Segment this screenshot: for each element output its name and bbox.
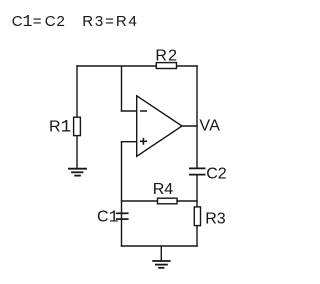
svg-text:C1: C1: [97, 207, 119, 226]
wire mid vertical to inverting input: [121, 66, 123, 111]
wire right bus upper (output net down to C2): [196, 66, 198, 168]
wire ground stub bottom: [160, 246, 162, 261]
ground (bottom): [152, 261, 170, 268]
wire non-inverting input: [122, 141, 138, 143]
wire left lower bus (node A: + input to C1 to bottom): [121, 142, 123, 246]
svg-text:R4: R4: [153, 181, 174, 198]
wire top (node: R1/R2/inverting input net): [77, 65, 197, 67]
capacitor C2: [189, 168, 206, 174]
svg-text:C1=C2: C1=C2: [12, 12, 65, 31]
wire bottom (ground net): [122, 245, 198, 247]
svg-text:R3: R3: [205, 210, 226, 227]
capacitor C1: [116, 213, 129, 219]
wire op-amp output to right bus: [182, 125, 197, 127]
wire R4 horizontal (node B): [122, 200, 198, 202]
resistor R2: [156, 63, 176, 69]
ground (under R1): [68, 169, 87, 176]
svg-text:R3=R4: R3=R4: [82, 13, 139, 30]
resistor R3: [194, 207, 200, 226]
svg-text:C2: C2: [206, 166, 227, 183]
resistor R1: [74, 117, 81, 135]
wire left bus from top node down to R1: [76, 66, 78, 169]
op-amp U1: [137, 96, 182, 157]
svg-text:VA: VA: [199, 118, 220, 135]
wire inverting input: [122, 110, 138, 112]
svg-text:R2: R2: [155, 48, 178, 65]
resistor R4: [158, 198, 178, 204]
wire right bus lower (C2 to R3 to bottom): [196, 175, 198, 246]
svg-text:R1: R1: [49, 117, 71, 137]
